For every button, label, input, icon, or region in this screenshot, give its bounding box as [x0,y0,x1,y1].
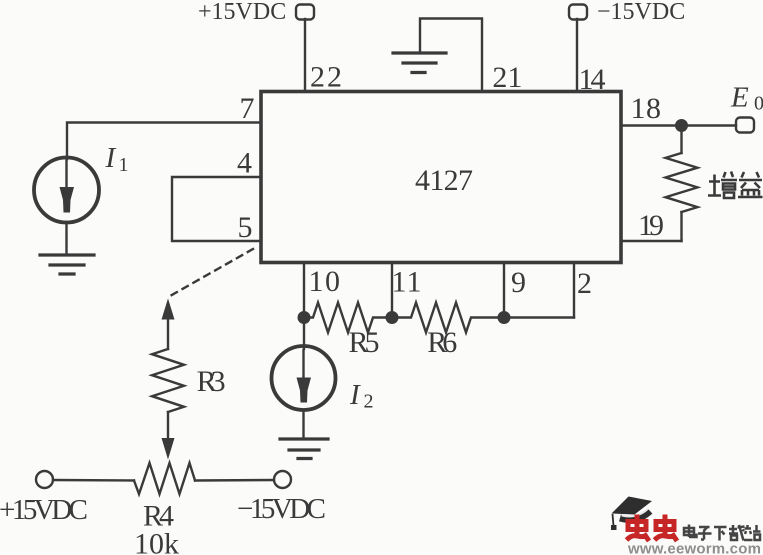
svg-text:4127: 4127 [415,164,473,197]
svg-text:R3: R3 [197,365,226,398]
svg-text:22: 22 [310,61,342,94]
svg-text:9: 9 [511,266,526,299]
svg-text:7: 7 [240,92,255,125]
svg-text:10: 10 [309,265,341,298]
svg-text:I: I [349,379,361,411]
svg-text:E: E [730,82,749,114]
svg-text:10k: 10k [134,528,179,555]
svg-text:R5: R5 [349,326,380,359]
svg-text:19: 19 [638,209,664,242]
svg-text:−15VDC: −15VDC [597,0,685,25]
svg-text:1: 1 [119,154,129,176]
svg-text:2: 2 [577,267,592,300]
svg-text:R6: R6 [427,326,457,359]
svg-text:0: 0 [754,93,763,115]
svg-text:2: 2 [364,391,374,413]
svg-text:www.eeworm.com: www.eeworm.com [627,541,761,555]
svg-text:−15VDC: −15VDC [237,493,326,525]
svg-text:4: 4 [237,147,252,180]
svg-text:21: 21 [492,61,522,94]
svg-text:14: 14 [579,63,606,96]
svg-text:5: 5 [238,211,253,244]
svg-text:+15VDC: +15VDC [0,494,88,526]
svg-text:11: 11 [392,266,422,299]
svg-text:+15VDC: +15VDC [198,0,286,25]
svg-text:I: I [105,142,117,174]
svg-text:18: 18 [631,92,662,125]
